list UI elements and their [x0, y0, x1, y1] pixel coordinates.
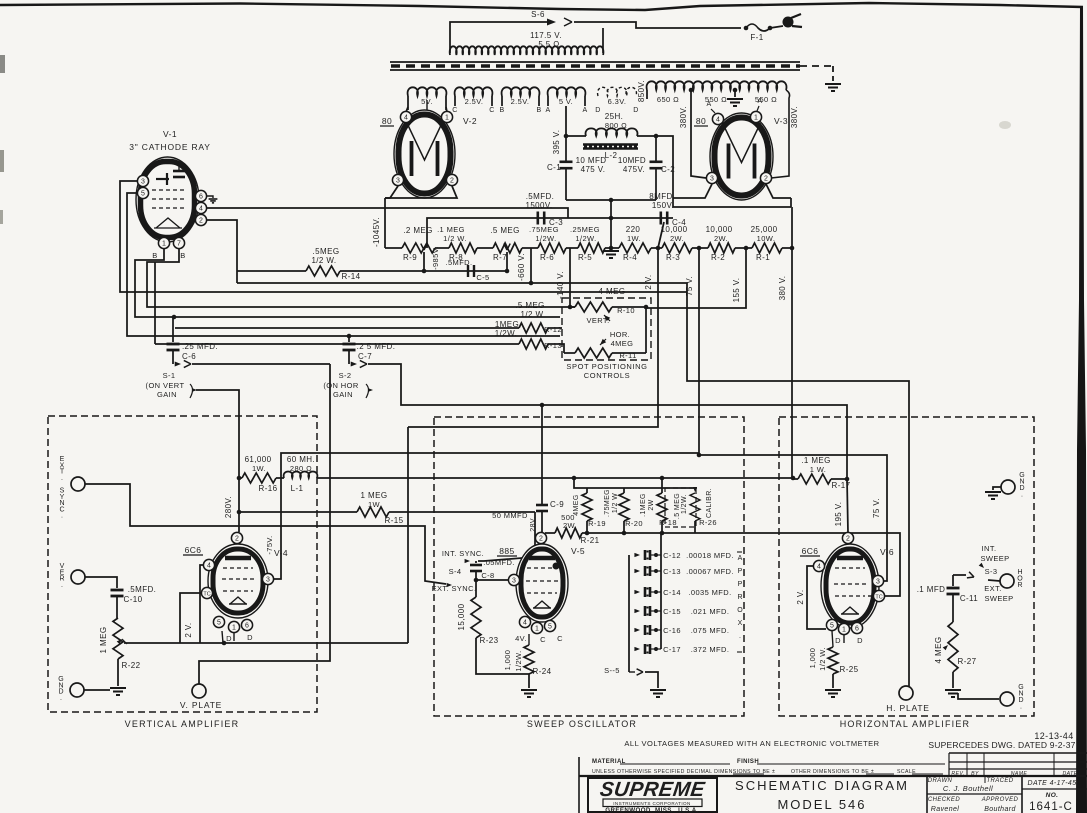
svg-text:(ON HOR: (ON HOR [323, 381, 358, 390]
svg-text:28V.: 28V. [530, 516, 537, 531]
wire -140V node to R-10 [570, 248, 575, 307]
wire B+ line to sweep resistors and R-17 [317, 477, 793, 479]
svg-text:C-1: C-1 [547, 163, 561, 172]
svg-text:FINISH: FINISH [737, 759, 759, 765]
switch S-6 [547, 19, 556, 26]
svg-text:S-3: S-3 [985, 567, 998, 576]
resistor R-5 .25MEG [578, 243, 605, 253]
svg-text:1/2 W.: 1/2 W. [443, 234, 467, 243]
capacitor C-5 .5MFD [467, 265, 469, 277]
wire CRT pin5 bundle [127, 193, 560, 336]
svg-text:R-17: R-17 [832, 481, 851, 490]
wire pin5 to R-25 [832, 631, 833, 647]
svg-text:.5MFD.: .5MFD. [128, 585, 157, 594]
wire V-3 cathode rail to B+ node [673, 184, 712, 198]
pin 5 V-5 [544, 620, 555, 631]
svg-text:2 V.: 2 V. [644, 274, 653, 289]
svg-text:B: B [536, 107, 541, 114]
svg-text:.: . [61, 582, 63, 589]
wire 75V rail [698, 248, 700, 455]
svg-text:EXT. SYNC.: EXT. SYNC. [432, 584, 477, 593]
wire 75V to V-4 pin3 [274, 453, 699, 579]
sweep oscillator box [434, 417, 744, 716]
wire AC line from switch to plug [574, 22, 741, 28]
svg-text:HOR.: HOR. [610, 330, 630, 339]
wire pin4 to cathode [807, 566, 826, 629]
wire R-15 to int sync [478, 512, 535, 561]
svg-text:380V.: 380V. [679, 106, 688, 128]
svg-text:3: 3 [876, 578, 880, 585]
svg-text:MODEL 546: MODEL 546 [777, 797, 866, 812]
wiper arrow R-11 HOR [598, 339, 606, 347]
svg-text:1: 1 [842, 626, 846, 633]
svg-text:1 MEG: 1 MEG [361, 491, 388, 500]
svg-text:1: 1 [232, 624, 236, 631]
wire 2V rail [408, 248, 658, 427]
wire fuse to plug [770, 26, 783, 28]
svg-text:2W: 2W [648, 499, 655, 510]
svg-text:.1MEG: .1MEG [640, 493, 647, 517]
resistor R-9 .2MEG [402, 243, 435, 253]
svg-text:.25MEG: .25MEG [570, 225, 600, 234]
svg-text:SUPREME: SUPREME [598, 778, 707, 801]
svg-text:C-11: C-11 [960, 594, 978, 603]
svg-text:NAME: NAME [1011, 771, 1028, 777]
svg-text:R-10: R-10 [617, 306, 635, 315]
svg-text:GAIN: GAIN [333, 390, 353, 399]
svg-text:61,000: 61,000 [245, 455, 272, 464]
transformer T-1 core [390, 61, 800, 63]
svg-text:220: 220 [626, 225, 641, 234]
capacitor C-9 50MMFD [541, 405, 543, 504]
pin 2 V-5 [535, 532, 546, 543]
wire S-2 to horizontal amp grid [368, 364, 847, 479]
svg-text:C-13: C-13 [663, 567, 681, 576]
wire ground drop [610, 200, 612, 248]
svg-text:6C6: 6C6 [802, 546, 819, 556]
ground top right [985, 491, 1001, 493]
wiper arrow R-10 VERT [602, 313, 610, 321]
svg-text:C: C [489, 107, 494, 114]
wire CRT pin7 bundle [147, 249, 564, 307]
svg-text:R-7: R-7 [493, 253, 507, 262]
wire pin4 to cathode rail [200, 565, 203, 643]
svg-text:2: 2 [450, 177, 454, 184]
border top scan line [0, 3, 1083, 10]
svg-text:1: 1 [535, 625, 539, 632]
pin 1 V-5 [531, 622, 542, 633]
svg-text:A: A [582, 107, 587, 114]
svg-text:R-15: R-15 [385, 516, 404, 525]
ground R-25 [825, 689, 841, 691]
svg-text:280V.: 280V. [224, 496, 233, 518]
svg-text:395 V.: 395 V. [552, 130, 561, 155]
svg-text:C-12: C-12 [663, 551, 681, 560]
capacitor C-7 .25MFD [348, 336, 350, 342]
svg-text:D: D [247, 633, 253, 642]
terminal EXT SYNC [71, 477, 85, 491]
wiper arrow R-7 [504, 244, 510, 250]
ground R-27 [945, 689, 961, 691]
svg-text:3" CATHODE RAY: 3" CATHODE RAY [129, 142, 210, 152]
svg-text:S--5: S--5 [604, 666, 620, 675]
wire winding to V-2 pin 1 [446, 107, 447, 112]
svg-text:.: . [60, 695, 62, 702]
svg-text:REV.: REV. [951, 771, 964, 777]
ground CRT pin 6 [207, 196, 213, 198]
pin 5 V-6 [826, 619, 837, 630]
svg-text:380V.: 380V. [790, 106, 799, 128]
svg-text:80: 80 [382, 116, 392, 126]
svg-text:.5MFD.: .5MFD. [526, 192, 555, 201]
svg-text:2: 2 [764, 175, 768, 182]
wire VER to C-10 [85, 577, 117, 588]
svg-text:D: D [857, 636, 863, 645]
svg-text:650 Ω: 650 Ω [657, 95, 679, 104]
svg-text:R-11: R-11 [619, 351, 636, 360]
svg-text:2W.: 2W. [563, 521, 577, 530]
svg-text:D: D [595, 107, 600, 114]
title block center divider [716, 776, 718, 813]
pin 5 V-1 [137, 187, 148, 198]
wire H plate line [237, 283, 909, 686]
resistor R-3 10000 2W [662, 243, 692, 253]
resistor R-4 220 1W [619, 243, 651, 253]
svg-text:C-17: C-17 [663, 645, 681, 654]
svg-text:.: . [61, 513, 63, 520]
svg-text:3: 3 [396, 177, 400, 184]
svg-text:.372 MFD.: .372 MFD. [691, 645, 730, 654]
svg-text:C: C [540, 635, 546, 644]
svg-text:.1 MFD: .1 MFD [917, 585, 946, 594]
svg-text:S-4: S-4 [449, 567, 462, 576]
svg-text:R-19: R-19 [588, 519, 606, 528]
winding 5V A-A [548, 87, 586, 96]
wire R-10 R-11 right side [645, 307, 647, 353]
terminal V PLATE [192, 684, 206, 698]
svg-text:7: 7 [177, 240, 181, 247]
svg-text:.05MFD.: .05MFD. [483, 558, 515, 567]
svg-text:R-24: R-24 [533, 667, 552, 676]
tube V-3 type 80 rectifier [710, 113, 773, 200]
svg-text:2W.: 2W. [714, 234, 728, 243]
svg-text:.: . [1021, 492, 1023, 499]
svg-text:2: 2 [235, 535, 239, 542]
power plug P-1 [783, 17, 794, 28]
horizontal amplifier box [779, 417, 1034, 716]
svg-text:4: 4 [199, 205, 203, 212]
svg-text:R-3: R-3 [666, 253, 680, 262]
svg-text:150V.: 150V. [652, 201, 674, 210]
wire resistor chain [385, 247, 402, 249]
svg-text:60 MH.: 60 MH. [287, 455, 315, 464]
wire winding to V-2 pin 4 [406, 107, 408, 112]
svg-text:INT.: INT. [982, 544, 997, 553]
svg-text:1,000: 1,000 [503, 650, 512, 671]
svg-text:8MFD: 8MFD [649, 192, 672, 201]
svg-text:L-1: L-1 [291, 484, 304, 493]
resistor R-7 .5MEG [493, 243, 522, 253]
wire R-21 output to V-6 grid [582, 533, 900, 596]
svg-text:1/2 W.: 1/2 W. [818, 647, 827, 671]
svg-text:850V.: 850V. [637, 80, 646, 102]
wire HV tap to V-3 plate pin 3 [689, 88, 694, 93]
svg-text:C: C [452, 107, 457, 114]
pin 3 V-2 [392, 174, 403, 185]
svg-text:1: 1 [162, 240, 166, 247]
svg-text:2.5V.: 2.5V. [511, 97, 530, 106]
svg-text:1 MEG: 1 MEG [99, 627, 108, 654]
switch S-1 [172, 360, 174, 364]
svg-text:F-1: F-1 [750, 33, 763, 42]
svg-text:2.5V.: 2.5V. [465, 97, 484, 106]
svg-text:1/2 W: 1/2 W [612, 493, 619, 513]
svg-text:R-6: R-6 [540, 253, 554, 262]
capacitor C-11 .1MFD [952, 575, 954, 586]
pin 2 V-4 [231, 532, 242, 543]
svg-text:1/2W.: 1/2W. [681, 494, 688, 514]
svg-text:5: 5 [830, 622, 834, 629]
svg-text:2 V.: 2 V. [796, 589, 805, 604]
wire C-4 to chain [658, 222, 664, 248]
svg-text:R-20: R-20 [625, 519, 643, 528]
resistor R-25 1000 [828, 647, 838, 674]
capacitor C-8 .05MFD [475, 561, 477, 563]
pin TC V-6 [873, 590, 884, 601]
svg-text:3: 3 [512, 577, 516, 584]
svg-text:Ravenel: Ravenel [931, 806, 960, 813]
winding 2.5V B-B [502, 87, 540, 96]
label approx [737, 551, 742, 553]
svg-text:.1 MEG: .1 MEG [437, 225, 465, 234]
pin 1 V-1 [158, 237, 169, 248]
resistor R-17 .1MEG 1W [798, 474, 831, 484]
svg-text:475 V.: 475 V. [581, 165, 606, 174]
svg-text:10W.: 10W. [757, 234, 776, 243]
pin 1 V-2 [441, 111, 452, 122]
svg-text:V-4: V-4 [274, 548, 288, 558]
svg-text:DATE: DATE [1062, 771, 1077, 777]
svg-text:1,000: 1,000 [808, 648, 817, 669]
svg-text:80: 80 [696, 116, 706, 126]
svg-text:VERT.: VERT. [586, 316, 609, 325]
wire chain end to V-3 output [791, 207, 793, 248]
svg-text:C-2: C-2 [661, 165, 675, 174]
resistor R-21 500 2W [545, 532, 555, 534]
svg-text:A: A [738, 555, 743, 562]
svg-text:1641-C: 1641-C [1029, 801, 1073, 813]
svg-text:VERTICAL AMPLIFIER: VERTICAL AMPLIFIER [125, 719, 240, 729]
wire R-23 bottom to R-24 [476, 638, 529, 674]
pin 3 V-5 [508, 574, 519, 585]
svg-text:6.3V.: 6.3V. [608, 97, 627, 106]
wire S-1 pot to plate node [196, 390, 239, 478]
pin 1 V-6 [838, 623, 849, 634]
svg-text:D: D [835, 636, 841, 645]
svg-text:.5 MEG: .5 MEG [515, 301, 545, 310]
resistor R-16 61000 1W [237, 476, 242, 481]
pin 3 V-4 [262, 573, 273, 584]
svg-text:B: B [152, 251, 157, 260]
svg-text:10,000: 10,000 [706, 225, 733, 234]
svg-text:TC: TC [875, 594, 882, 600]
svg-text:3: 3 [266, 576, 270, 583]
wire -660V node [530, 248, 532, 283]
svg-text:1/2 W.: 1/2 W. [311, 256, 336, 265]
svg-text:1/2W.: 1/2W. [535, 234, 556, 243]
tube V-1 cathode ray 3in [136, 157, 199, 242]
svg-text:4: 4 [207, 562, 211, 569]
svg-text:L-2: L-2 [605, 151, 618, 160]
svg-text:EXT.: EXT. [984, 584, 1001, 593]
svg-text:S-6: S-6 [531, 10, 545, 19]
wire CRT pin1 bundle [135, 249, 560, 317]
pin TC V-4 [201, 587, 212, 598]
svg-text:2W.: 2W. [670, 234, 684, 243]
svg-text:R-22: R-22 [122, 661, 141, 670]
svg-text:INT. SYNC.: INT. SYNC. [442, 549, 484, 558]
svg-text:(ON VERT: (ON VERT [146, 381, 185, 390]
wire L-2 to C-2 top and V-3 output [637, 136, 791, 207]
pin 4 V-1 [195, 202, 206, 213]
svg-text:R-9: R-9 [403, 253, 417, 262]
svg-text:A: A [757, 98, 762, 105]
svg-text:V-3: V-3 [774, 116, 788, 126]
switch S-2 [348, 360, 350, 364]
svg-text:2: 2 [846, 535, 850, 542]
wire 2V rail from chain [407, 427, 409, 643]
svg-text:R-5: R-5 [578, 253, 592, 262]
wire pin5 stub [222, 631, 223, 643]
wire HV center tap to ground [733, 88, 738, 93]
spot positioning controls box [562, 298, 651, 360]
svg-text:C-10: C-10 [124, 595, 143, 604]
svg-text:6: 6 [855, 625, 859, 632]
wiper arrow R-22 [117, 638, 124, 645]
terminal GND top right [1001, 480, 1015, 494]
pin 4 V-6 [813, 560, 824, 571]
terminal H PLATE [899, 686, 913, 700]
svg-text:280 Ω: 280 Ω [290, 464, 312, 473]
svg-text:6: 6 [245, 622, 249, 629]
svg-text:SPOT POSITIONING: SPOT POSITIONING [566, 362, 647, 371]
svg-text:380 V.: 380 V. [778, 276, 787, 301]
svg-text:475V.: 475V. [623, 165, 645, 174]
winding 6.3V D-D (dashed) [598, 87, 637, 96]
pin 3 V-1 [137, 175, 148, 186]
svg-text:C: C [557, 634, 563, 643]
pin 4 V-3 [712, 113, 723, 124]
svg-text:25,000: 25,000 [751, 225, 778, 234]
resistor R-23 15000 [471, 597, 481, 638]
svg-text:.: . [739, 633, 741, 640]
wire 380V rail to R-17 [791, 248, 793, 479]
tube V-2 type 80 rectifier [394, 110, 455, 198]
svg-text:TC: TC [203, 591, 210, 597]
svg-text:D: D [226, 634, 232, 643]
svg-text:ALL VOLTAGES MEASURED WITH: ALL VOLTAGES MEASURED WITH AN ELECTRONIC… [624, 739, 879, 748]
wire cathode 2V rail [124, 642, 408, 644]
svg-text:SCHEMATIC DIAGRAM: SCHEMATIC DIAGRAM [735, 778, 909, 793]
svg-text:APPROVED: APPROVED [981, 797, 1019, 803]
wire CRT pin4 to C-3 bus [207, 208, 568, 218]
svg-text:C-5: C-5 [476, 273, 489, 282]
wiper arrow R-9 [421, 244, 427, 250]
wire C-3 C-4 bus [427, 218, 673, 248]
ground core [825, 83, 841, 85]
svg-text:GAIN: GAIN [157, 390, 177, 399]
pin 6 V-4 [241, 619, 252, 630]
svg-text:V-5: V-5 [571, 546, 585, 556]
svg-text:10,000: 10,000 [661, 225, 688, 234]
ground below resistor chain [603, 250, 619, 252]
CRT gun structure [156, 178, 169, 180]
svg-text:R-27: R-27 [958, 657, 977, 666]
svg-text:V-6: V-6 [880, 547, 894, 557]
pin 1 V-3 [750, 111, 761, 122]
svg-text:R-21: R-21 [581, 536, 600, 545]
svg-text:10 MFD: 10 MFD [576, 156, 607, 165]
svg-text:R-16: R-16 [259, 484, 278, 493]
svg-text:GREENWOOD. MISS.. U.S.A.: GREENWOOD. MISS.. U.S.A. [605, 807, 698, 813]
transformer T-1 primary winding [450, 46, 604, 55]
wire S-1 to V plate [199, 364, 330, 684]
wire GND to ground [993, 487, 1001, 490]
svg-text:1/2W.: 1/2W. [575, 234, 596, 243]
svg-text:2: 2 [199, 217, 203, 224]
wire cathode pins to R-24 [528, 634, 530, 645]
svg-text:CHECKED: CHECKED [928, 797, 960, 803]
svg-text:4: 4 [404, 114, 408, 121]
wire winding 1 center tap [426, 100, 428, 110]
ground R-22 [110, 687, 126, 689]
svg-text:75 V.: 75 V. [872, 498, 881, 518]
svg-text:1: 1 [445, 114, 449, 121]
svg-text:V-2: V-2 [463, 116, 477, 126]
pin 3 V-6 [872, 575, 883, 586]
svg-text:CALIBR.: CALIBR. [706, 488, 713, 518]
svg-text:.5 MEG: .5 MEG [674, 493, 681, 519]
svg-text:DATE 4-17-45: DATE 4-17-45 [1027, 780, 1076, 787]
svg-text:155 V.: 155 V. [732, 278, 741, 303]
svg-text:.75MEG: .75MEG [529, 225, 559, 234]
wire dashed core ground lead [800, 65, 833, 67]
wire R-13 feed [154, 262, 156, 344]
svg-text:C-8: C-8 [481, 571, 494, 580]
svg-text:-1045V.: -1045V. [372, 217, 381, 247]
terminal VER [71, 570, 85, 584]
fuse F-1 [744, 26, 749, 31]
resistor R-26 .5MEG calibr [665, 488, 696, 527]
pin 2 V-1 [195, 214, 206, 225]
svg-text:.25 MFD.: .25 MFD. [182, 342, 218, 351]
resistor R-1 25000 10W [752, 243, 782, 253]
svg-text:X: X [738, 620, 743, 627]
resistor R-24 1000 [524, 645, 534, 674]
wire CRT pin3 bundle [120, 181, 687, 292]
svg-text:D: D [633, 107, 638, 114]
pin 4 V-5 [519, 616, 530, 627]
svg-text:S-2: S-2 [339, 371, 352, 380]
svg-text:R-2: R-2 [711, 253, 725, 262]
capacitor C-6 .25MFD [172, 317, 174, 342]
svg-text:4V.: 4V. [515, 634, 527, 643]
capacitor C-2 10MFD 475V [655, 136, 657, 161]
wire CRT pin2 to R-14 [207, 220, 237, 283]
scan smudges left edge [0, 55, 5, 73]
title block drawn traced cell [926, 776, 928, 813]
svg-text:10MFD: 10MFD [618, 156, 646, 165]
